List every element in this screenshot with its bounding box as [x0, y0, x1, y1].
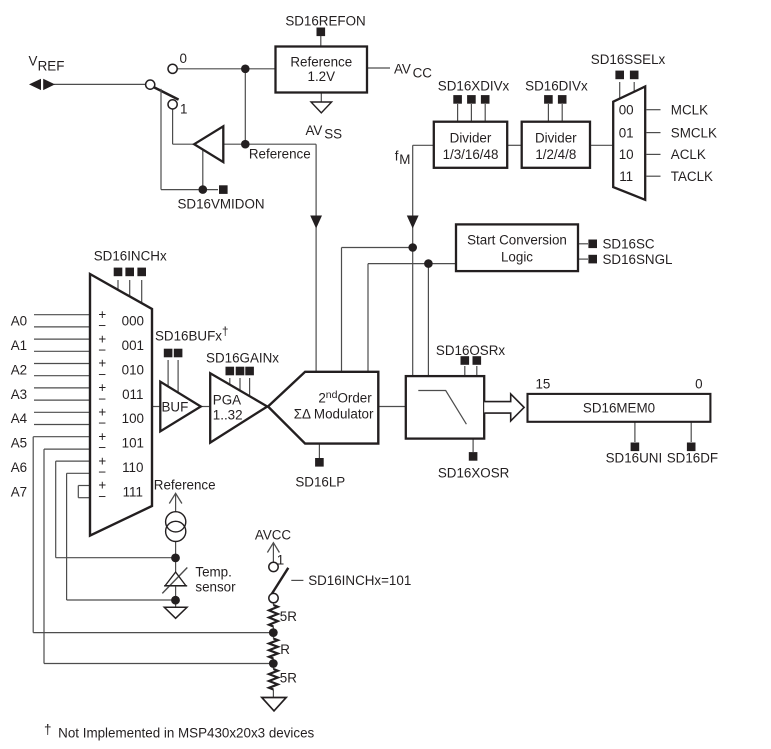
svg-text:AV: AV	[306, 123, 323, 138]
svg-text:A2: A2	[11, 362, 27, 377]
svg-text:A7: A7	[11, 484, 27, 499]
svg-text:ACLK: ACLK	[671, 147, 706, 162]
svg-text:A3: A3	[11, 387, 27, 402]
svg-text:AV: AV	[394, 61, 411, 76]
svg-text:SD16DF: SD16DF	[667, 451, 718, 466]
svg-text:111: 111	[123, 484, 143, 499]
svg-text:A4: A4	[11, 411, 28, 426]
svg-text:SD16VMIDON: SD16VMIDON	[177, 196, 264, 211]
svg-text:CC: CC	[413, 65, 433, 80]
svg-text:SS: SS	[324, 126, 342, 141]
svg-text:01: 01	[619, 125, 634, 140]
svg-text:SMCLK: SMCLK	[671, 125, 717, 140]
svg-text:000: 000	[122, 314, 144, 329]
svg-text:PGA: PGA	[213, 393, 241, 408]
svg-text:011: 011	[122, 387, 143, 402]
svg-text:1: 1	[180, 102, 187, 117]
svg-text:Divider: Divider	[535, 131, 577, 146]
svg-text:−: −	[98, 489, 106, 504]
svg-text:ΣΔ Modulator: ΣΔ Modulator	[294, 407, 374, 422]
svg-text:SD16OSRx: SD16OSRx	[436, 343, 506, 358]
svg-text:A6: A6	[11, 460, 27, 475]
svg-text:SD16DIVx: SD16DIVx	[525, 78, 588, 93]
svg-text:SD16INCHx: SD16INCHx	[94, 248, 167, 263]
svg-text:AVCC: AVCC	[255, 528, 292, 543]
svg-text:5R: 5R	[280, 609, 297, 624]
svg-text:00: 00	[619, 102, 634, 117]
svg-text:SD16XDIVx: SD16XDIVx	[438, 78, 510, 93]
svg-text:SD16INCHx=101: SD16INCHx=101	[308, 573, 411, 588]
svg-text:V: V	[29, 54, 38, 69]
svg-text:SD16REFON: SD16REFON	[285, 14, 365, 29]
svg-text:Logic: Logic	[501, 249, 533, 264]
svg-text:0: 0	[180, 51, 187, 66]
svg-text:10: 10	[619, 147, 634, 162]
svg-text:A5: A5	[11, 436, 27, 451]
svg-text:Reference: Reference	[249, 147, 311, 162]
svg-text:SD16MEM0: SD16MEM0	[583, 400, 655, 415]
svg-text:TACLK: TACLK	[671, 169, 713, 184]
svg-text:5R: 5R	[280, 671, 297, 686]
svg-text:SD16GAINx: SD16GAINx	[206, 351, 279, 366]
svg-text:Start Conversion: Start Conversion	[467, 232, 567, 247]
svg-text:Temp.: Temp.	[195, 564, 231, 579]
svg-text:0: 0	[695, 376, 702, 391]
svg-text:1.2V: 1.2V	[308, 69, 336, 84]
svg-text:001: 001	[122, 338, 144, 353]
svg-text:sensor: sensor	[195, 579, 236, 594]
svg-text:Divider: Divider	[450, 131, 492, 146]
svg-text:SD16LP: SD16LP	[295, 475, 345, 490]
svg-text:M: M	[399, 152, 410, 167]
svg-text:Reference: Reference	[290, 55, 352, 70]
svg-text:f: f	[395, 148, 399, 163]
svg-text:010: 010	[122, 362, 144, 377]
svg-text:MCLK: MCLK	[671, 102, 708, 117]
svg-text:SD16SC: SD16SC	[603, 237, 655, 252]
svg-text:SD16SSELx: SD16SSELx	[591, 52, 666, 67]
svg-text:A0: A0	[11, 314, 27, 329]
svg-text:100: 100	[122, 411, 144, 426]
svg-text:SD16SNGL: SD16SNGL	[603, 252, 673, 267]
svg-text:R: R	[280, 642, 290, 657]
svg-text:Reference: Reference	[154, 478, 216, 493]
svg-text:SD16XOSR: SD16XOSR	[438, 466, 510, 481]
svg-text:BUF: BUF	[162, 399, 189, 414]
svg-text:1/2/4/8: 1/2/4/8	[535, 147, 576, 162]
svg-text:11: 11	[619, 169, 633, 184]
svg-text:REF: REF	[38, 59, 65, 74]
svg-text:SD16UNI: SD16UNI	[606, 451, 663, 466]
svg-text:† Not Implemented in MSP430x20: † Not Implemented in MSP430x20x3 devices	[44, 722, 315, 741]
svg-text:1/3/16/48: 1/3/16/48	[443, 147, 499, 162]
svg-text:1..32: 1..32	[213, 408, 243, 423]
svg-text:A1: A1	[11, 338, 27, 353]
svg-text:101: 101	[122, 436, 144, 451]
svg-text:SD16BUFx†: SD16BUFx†	[155, 327, 228, 344]
svg-text:15: 15	[535, 376, 550, 391]
svg-text:110: 110	[122, 460, 143, 475]
